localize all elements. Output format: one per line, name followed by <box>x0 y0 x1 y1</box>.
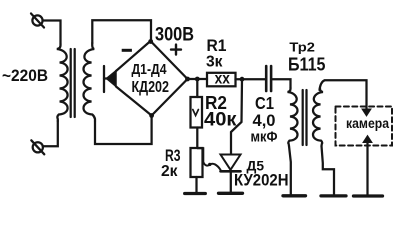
transformer T1 secondary winding <box>83 43 95 121</box>
ground bar under Tr2 secondary <box>321 194 346 197</box>
wire Tr1 secondary bottom to bridge bottom <box>95 116 152 145</box>
minus sign <box>122 49 132 52</box>
svg-text:мкФ: мкФ <box>251 129 278 146</box>
node: bridge top junction <box>148 39 153 44</box>
diode bridge D1-D4 diamond <box>116 41 188 116</box>
transformer T2 core <box>302 90 304 145</box>
capacitor C1 <box>266 66 271 91</box>
wire R2 top <box>196 79 198 97</box>
wire C1 to Tr2 primary <box>272 79 290 88</box>
wire Tr2 primary bottom to ground <box>289 146 291 194</box>
svg-text:С1: С1 <box>255 93 274 113</box>
terminal X2 bottom-left <box>31 140 44 154</box>
wire Tr2 secondary top to camera <box>320 80 367 110</box>
transformer T2 secondary winding <box>313 88 323 146</box>
svg-text:2к: 2к <box>161 163 178 180</box>
node: R2 top junction <box>195 77 200 82</box>
ground bar under R3 <box>185 192 206 195</box>
transformer T1 core <box>70 49 72 117</box>
wire bridge right to R1 <box>188 78 208 80</box>
terminal X1 top-left <box>31 14 44 28</box>
svg-text:~220В: ~220В <box>2 67 48 85</box>
svg-text:камера: камера <box>346 115 389 131</box>
node: bridge right junction <box>185 77 190 82</box>
svg-text:КУ202Н: КУ202Н <box>234 171 289 189</box>
svg-text:Б115: Б115 <box>288 54 326 75</box>
node: bridge bottom junction <box>149 113 154 118</box>
svg-text:300В: 300В <box>155 24 194 45</box>
svg-text:40к: 40к <box>204 109 237 131</box>
resistor R1 <box>207 73 236 87</box>
ground bar under Tr2 primary <box>283 194 306 197</box>
thyristor D5 <box>221 155 241 193</box>
svg-text:хх: хх <box>215 71 231 88</box>
svg-text:3к: 3к <box>206 54 223 71</box>
svg-text:R1: R1 <box>207 36 227 55</box>
node: thyristor anode junction <box>240 77 245 82</box>
wire R2 to R3 <box>196 128 198 149</box>
arrow into camera bottom <box>363 136 372 143</box>
wire R3 to ground <box>195 177 197 192</box>
transformer T1 primary winding <box>57 44 68 121</box>
svg-text:КД202: КД202 <box>132 79 170 96</box>
ground bar under thyristor <box>219 192 243 195</box>
wire top terminal to Tr1 primary <box>43 21 61 45</box>
ground bar under camera <box>354 194 383 197</box>
svg-text:4,0: 4,0 <box>253 111 276 130</box>
wire camera bottom to ground <box>366 142 368 195</box>
wire Tr1 secondary top to bridge <box>92 20 151 43</box>
wire R1 to C1 <box>236 78 266 80</box>
arrow into camera top <box>362 109 371 116</box>
thyristor anode wire <box>231 79 242 154</box>
transformer T2 primary winding <box>288 88 298 146</box>
resistor R3 <box>191 148 203 177</box>
thyristor gate wire <box>198 148 221 170</box>
wire Tr2 secondary bottom to ground <box>322 146 335 194</box>
resistor R2 <box>191 97 203 128</box>
bridge diode symbol <box>104 66 116 92</box>
R2 power mark v <box>193 110 199 116</box>
svg-text:Д1-Д4: Д1-Д4 <box>132 62 167 78</box>
svg-text:Тр2: Тр2 <box>289 40 315 54</box>
wire bottom terminal to Tr1 primary <box>43 121 58 146</box>
camera dashed box <box>336 107 393 146</box>
plus sign <box>171 45 181 55</box>
